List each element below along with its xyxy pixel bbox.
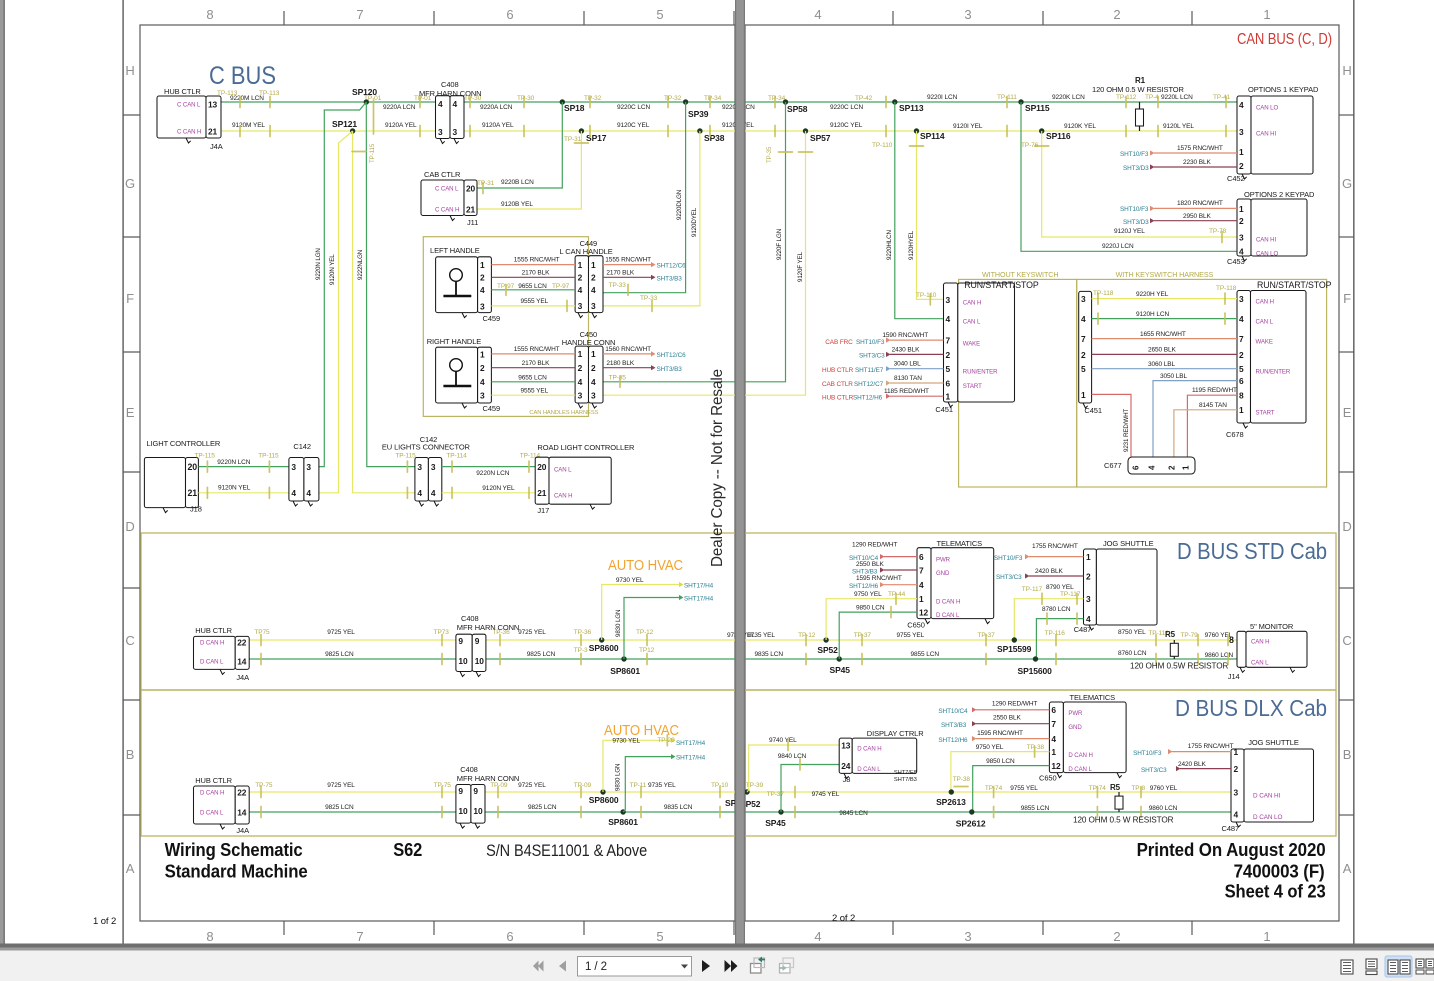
svg-text:21: 21 — [208, 126, 218, 136]
svg-text:A: A — [126, 861, 135, 876]
svg-text:SHT11/E7: SHT11/E7 — [855, 367, 884, 374]
svg-text:C459: C459 — [483, 314, 501, 323]
svg-text:1185 RED/WHT: 1185 RED/WHT — [884, 388, 929, 395]
svg-text:SHT10/F3: SHT10/F3 — [1120, 151, 1149, 158]
svg-text:5: 5 — [656, 7, 663, 22]
wire 1555 RNC/WHT left handle to C449 — [491, 264, 575, 266]
svg-text:CAN LO: CAN LO — [1256, 105, 1278, 112]
wire 9120D YEL drop SP38 to C449 — [603, 131, 700, 306]
svg-text:SP15599: SP15599 — [997, 644, 1032, 654]
wire 9220N LGN drop from SP120 — [319, 102, 366, 467]
wire 9120 C-bus YEL main (yellow) — [221, 130, 1237, 132]
svg-text:L CAN HANDLE: L CAN HANDLE — [560, 247, 613, 256]
wire 9850 LCN C650 to SP2612 — [973, 766, 1050, 812]
wire 9850 LCN C650 to SP45 — [839, 612, 917, 659]
layout icon two pages (selected) — [1385, 956, 1412, 977]
svg-text:TP-111: TP-111 — [997, 94, 1017, 101]
svg-text:9220A LCN: 9220A LCN — [383, 104, 416, 111]
svg-text:1820 RNC/WHT: 1820 RNC/WHT — [1177, 200, 1223, 207]
svg-text:9120I YEL: 9120I YEL — [953, 123, 983, 130]
svg-text:9735 YEL: 9735 YEL — [648, 782, 676, 789]
svg-text:1755 RNC/WHT: 1755 RNC/WHT — [1032, 543, 1078, 550]
svg-text:TP-09: TP-09 — [574, 782, 592, 789]
section box CAN HANDLES HARNESS — [423, 237, 588, 417]
svg-text:1: 1 — [591, 349, 596, 359]
resistor R1 120 ohm — [1139, 102, 1141, 131]
test point TP-76 lead on SP116 drop — [1035, 145, 1049, 147]
svg-text:TP-110: TP-110 — [872, 142, 893, 149]
svg-text:WITHOUT KEYSWITCH: WITHOUT KEYSWITCH — [982, 270, 1058, 279]
toolbar next page button — [702, 960, 710, 972]
svg-text:9220A LCN: 9220A LCN — [480, 104, 513, 111]
svg-text:TP-97: TP-97 — [552, 283, 570, 290]
svg-text:9725 YEL: 9725 YEL — [327, 782, 355, 789]
svg-text:3: 3 — [1081, 294, 1086, 304]
svg-text:9120C YEL: 9120C YEL — [617, 122, 650, 129]
svg-text:J11: J11 — [467, 218, 478, 227]
svg-text:4: 4 — [578, 285, 583, 295]
svg-text:9725 YEL: 9725 YEL — [518, 629, 546, 636]
svg-text:3: 3 — [306, 462, 311, 472]
svg-text:GND: GND — [936, 570, 950, 577]
svg-text:1655 RNC/WHT: 1655 RNC/WHT — [1140, 331, 1186, 338]
svg-text:9220C LCN: 9220C LCN — [617, 104, 650, 111]
svg-text:9120L YEL: 9120L YEL — [1163, 123, 1194, 130]
svg-text:G: G — [125, 176, 135, 191]
svg-text:5" MONITOR: 5" MONITOR — [1250, 622, 1294, 631]
svg-text:12: 12 — [1051, 761, 1061, 771]
svg-text:SP113: SP113 — [899, 103, 924, 113]
svg-text:TP-33: TP-33 — [640, 295, 658, 302]
wire 1755 RNC/WHT to C487 (DLX) — [1168, 749, 1173, 754]
svg-text:1: 1 — [1051, 747, 1056, 757]
svg-text:3060 LBL: 3060 LBL — [1148, 361, 1176, 368]
svg-text:8780 LCN: 8780 LCN — [1042, 606, 1071, 613]
svg-text:START: START — [963, 383, 982, 390]
svg-text:4: 4 — [1086, 614, 1091, 624]
viewer toolbar — [0, 951, 1434, 981]
svg-text:SP8601: SP8601 — [610, 666, 640, 676]
svg-text:C650: C650 — [907, 621, 925, 630]
svg-text:6: 6 — [919, 552, 924, 562]
svg-text:9750 YEL: 9750 YEL — [854, 591, 882, 598]
svg-text:SHT10/F3: SHT10/F3 — [1133, 750, 1162, 757]
svg-text:4: 4 — [1239, 100, 1244, 110]
wire 8790 YEL C487 to SP15599 — [1014, 599, 1083, 640]
wire 9840 LCN SP45 to display ctlr J8 — [781, 765, 839, 813]
svg-text:2550 BLK: 2550 BLK — [993, 715, 1022, 722]
svg-text:TP75: TP75 — [254, 629, 270, 636]
svg-text:4: 4 — [814, 7, 821, 22]
svg-text:1290 RED/WHT: 1290 RED/WHT — [992, 701, 1038, 708]
svg-text:SHT3/B3: SHT3/B3 — [941, 722, 967, 729]
svg-text:7: 7 — [356, 929, 363, 944]
svg-text:C408: C408 — [460, 765, 478, 774]
svg-text:9855 LCN: 9855 LCN — [1021, 805, 1050, 812]
svg-text:TP-34: TP-34 — [704, 95, 722, 102]
svg-text:9850 LCN: 9850 LCN — [856, 605, 885, 612]
wire 9555 YEL right handle to C450 — [491, 394, 575, 396]
svg-text:8750 YEL: 8750 YEL — [1118, 629, 1146, 636]
svg-text:1195 RED/WHT: 1195 RED/WHT — [1192, 387, 1237, 394]
test point TP-78 lead before C453 — [1221, 232, 1223, 243]
svg-text:TP-30: TP-30 — [517, 95, 535, 102]
svg-text:1590 RNC/WHT: 1590 RNC/WHT — [882, 332, 928, 339]
svg-text:13: 13 — [208, 99, 218, 109]
resistor R5 120 ohm (STD) — [1173, 640, 1175, 659]
svg-text:9120DYEL: 9120DYEL — [691, 207, 698, 237]
svg-text:SHT17/H4: SHT17/H4 — [676, 740, 706, 747]
svg-text:C: C — [1342, 633, 1351, 648]
svg-text:SP121: SP121 — [332, 119, 357, 129]
svg-text:2180 BLK: 2180 BLK — [606, 360, 635, 367]
svg-text:D: D — [125, 519, 134, 534]
test point TP-115 lead on drops — [352, 151, 366, 153]
svg-text:4: 4 — [1081, 314, 1086, 324]
wire 2180 BLK C450 to sheet arrow — [603, 367, 651, 369]
svg-text:GND: GND — [1068, 724, 1082, 731]
wire 1820 RNC/WHT to C453 pin1 — [1150, 206, 1155, 211]
test point TP-01 lead spanning buses — [373, 100, 375, 134]
svg-text:9220N LGN: 9220N LGN — [315, 248, 322, 280]
svg-text:1: 1 — [1239, 147, 1244, 157]
svg-text:START: START — [1256, 410, 1275, 417]
svg-text:1: 1 — [480, 260, 485, 270]
svg-text:C452: C452 — [1227, 174, 1245, 183]
svg-text:9: 9 — [458, 786, 463, 796]
svg-text:J8: J8 — [843, 775, 851, 784]
svg-text:9730 YEL: 9730 YEL — [616, 577, 644, 584]
svg-text:E: E — [126, 405, 135, 420]
svg-text:9760 YEL: 9760 YEL — [1150, 785, 1178, 792]
section box D BUS DLX Cab — [141, 690, 1336, 836]
wire 9825 LCN D-bus STD (green) — [249, 658, 1237, 660]
svg-text:3: 3 — [578, 390, 583, 400]
svg-text:B: B — [1343, 747, 1352, 762]
svg-text:9835 LCN: 9835 LCN — [755, 651, 784, 658]
wire 1575 RNC/WHT to C452 pin1 — [1150, 150, 1155, 155]
test point TP-34 TP-42 leads page2 — [774, 97, 776, 108]
svg-text:SHT3/B3: SHT3/B3 — [657, 366, 683, 373]
svg-text:1 of 2: 1 of 2 — [93, 916, 116, 927]
svg-text:8: 8 — [1229, 635, 1234, 645]
svg-text:TP-12: TP-12 — [636, 629, 654, 636]
wire 9220B LCN from cab ctlr to SP18 — [477, 102, 562, 188]
wire 9555 YEL left handle to C449 — [491, 305, 575, 307]
svg-text:10: 10 — [458, 806, 468, 816]
svg-text:LIGHT CONTROLLER: LIGHT CONTROLLER — [147, 439, 221, 448]
splice SP57 — [803, 128, 808, 133]
wire 9120N YEL J18 to C142 — [198, 492, 289, 494]
svg-text:C BUS: C BUS — [209, 62, 276, 90]
svg-text:2170 BLK: 2170 BLK — [522, 270, 551, 277]
svg-text:TP-33: TP-33 — [609, 282, 627, 289]
splice SP39 — [683, 99, 688, 104]
svg-text:9120N YEL: 9120N YEL — [482, 485, 515, 492]
svg-text:TP-8: TP-8 — [1131, 785, 1145, 792]
svg-text:C CAN H: C CAN H — [435, 207, 459, 214]
wire 9830 LGN to auto hvac (DLX) — [623, 757, 671, 812]
svg-text:Wiring Schematic: Wiring Schematic — [165, 840, 303, 860]
page 1 left grid ticks — [123, 114, 140, 116]
wire 2170 BLK left handle to C449 — [491, 276, 575, 278]
svg-text:2: 2 — [946, 350, 951, 360]
svg-text:4: 4 — [431, 488, 436, 498]
svg-text:C408: C408 — [441, 80, 459, 89]
svg-text:C453: C453 — [1227, 257, 1245, 266]
svg-text:J18: J18 — [190, 505, 202, 514]
wire 9655 LCN right handle to C450 — [491, 381, 575, 383]
svg-text:14: 14 — [237, 807, 247, 817]
section box D BUS STD Cab — [141, 533, 1336, 690]
svg-text:SHT10/F3: SHT10/F3 — [1120, 206, 1149, 213]
svg-text:SHT10/F3: SHT10/F3 — [856, 339, 885, 346]
svg-text:J14: J14 — [1228, 672, 1240, 681]
svg-text:SHT7/B3: SHT7/B3 — [894, 777, 917, 783]
svg-text:9220C LCN: 9220C LCN — [830, 104, 863, 111]
svg-text:TP-31: TP-31 — [564, 136, 582, 143]
svg-text:9120H LCN: 9120H LCN — [1136, 311, 1169, 318]
svg-text:Sheet 4 of 23: Sheet 4 of 23 — [1225, 882, 1326, 902]
connector C677 — [1128, 457, 1195, 474]
svg-text:2950 BLK: 2950 BLK — [1183, 213, 1212, 220]
svg-text:9850 LCN: 9850 LCN — [986, 758, 1015, 765]
svg-text:9825 LCN: 9825 LCN — [528, 804, 557, 811]
svg-text:C650: C650 — [1039, 774, 1057, 783]
svg-text:SHT17/H4: SHT17/H4 — [684, 583, 714, 590]
svg-text:1755 RNC/WHT: 1755 RNC/WHT — [1188, 743, 1234, 750]
svg-text:6: 6 — [506, 929, 513, 944]
svg-text:4: 4 — [417, 488, 422, 498]
svg-text:8: 8 — [1239, 391, 1244, 401]
svg-text:TP-30: TP-30 — [464, 95, 482, 102]
svg-text:4: 4 — [578, 377, 583, 387]
svg-text:5: 5 — [1239, 364, 1244, 374]
svg-text:9735 YEL: 9735 YEL — [747, 632, 775, 639]
svg-text:SP8601: SP8601 — [608, 817, 638, 827]
svg-text:CAB FRC: CAB FRC — [825, 339, 853, 346]
test point TP-110 lead near SP114 — [910, 145, 924, 147]
wire 2420 BLK to C487 (STD) — [1025, 573, 1030, 578]
svg-text:2: 2 — [1239, 216, 1244, 226]
wire 2430 BLK to C451 pin2 — [886, 352, 891, 357]
wire 9220D LGN drop SP39 to C449 — [603, 102, 686, 293]
wire 9220 C-bus LCN main (green) — [221, 101, 1237, 103]
svg-text:OPTIONS 1 KEYPAD: OPTIONS 1 KEYPAD — [1248, 85, 1319, 94]
svg-text:1290 RED/WHT: 1290 RED/WHT — [852, 542, 898, 549]
svg-text:JOG SHUTTLE: JOG SHUTTLE — [1103, 539, 1154, 548]
wire 1595 RNC/WHT to C650 (DLX) — [972, 736, 977, 741]
svg-text:3: 3 — [1234, 787, 1239, 797]
svg-text:2 of 2: 2 of 2 — [832, 913, 855, 924]
svg-text:TP-35: TP-35 — [766, 146, 773, 163]
wire 9220H YEL between C451 and C678 — [1092, 298, 1237, 300]
svg-text:9555 YEL: 9555 YEL — [521, 298, 549, 305]
svg-text:TP-09: TP-09 — [490, 782, 508, 789]
svg-text:SP58: SP58 — [787, 104, 808, 114]
svg-text:C408: C408 — [461, 614, 479, 623]
svg-text:AUTO HVAC: AUTO HVAC — [608, 557, 683, 574]
svg-text:SHT3/D3: SHT3/D3 — [1123, 219, 1149, 226]
svg-text:21: 21 — [188, 488, 198, 498]
svg-text:7400003 (F): 7400003 (F) — [1234, 862, 1325, 882]
wire 9120 second drop from SP121 to EU connector — [353, 131, 415, 493]
svg-text:9740 YEL: 9740 YEL — [769, 737, 797, 744]
svg-text:D BUS STD Cab: D BUS STD Cab — [1177, 538, 1327, 564]
svg-text:SHT12/C7: SHT12/C7 — [854, 381, 884, 388]
svg-text:3: 3 — [453, 127, 458, 137]
svg-text:Dealer Copy -- Not for Resale: Dealer Copy -- Not for Resale — [709, 369, 726, 567]
svg-text:1: 1 — [1263, 7, 1270, 22]
svg-text:HUB CTLR: HUB CTLR — [164, 87, 201, 96]
svg-text:9855 LCN: 9855 LCN — [911, 651, 940, 658]
svg-text:TP-115: TP-115 — [369, 143, 376, 163]
svg-text:TP-01: TP-01 — [364, 95, 382, 102]
splice SP114 — [914, 128, 919, 133]
splice SP52 (DLX) — [744, 789, 749, 794]
svg-text:J4A: J4A — [210, 142, 223, 151]
svg-text:12: 12 — [919, 608, 929, 618]
test point TP-34 leads — [709, 97, 711, 108]
svg-text:WAKE: WAKE — [963, 341, 980, 348]
svg-text:3: 3 — [1239, 232, 1244, 242]
svg-text:TP-115: TP-115 — [258, 453, 279, 460]
svg-text:6: 6 — [506, 7, 513, 22]
svg-text:D: D — [1342, 519, 1351, 534]
svg-text:1: 1 — [578, 260, 583, 270]
svg-text:J17: J17 — [537, 506, 549, 515]
svg-text:TP-115: TP-115 — [395, 453, 416, 460]
test point TP-4 lead — [1157, 97, 1159, 108]
svg-text:DISPLAY CTRLR: DISPLAY CTRLR — [867, 729, 924, 738]
svg-text:3050 LBL: 3050 LBL — [1160, 373, 1188, 380]
svg-text:C142: C142 — [293, 442, 311, 451]
svg-text:1555 RNC/WHT: 1555 RNC/WHT — [514, 257, 560, 264]
svg-text:D CAN L: D CAN L — [200, 810, 224, 817]
svg-text:SHT12/H6: SHT12/H6 — [938, 737, 968, 744]
svg-text:20: 20 — [537, 462, 547, 472]
svg-text:SHT3/D3: SHT3/D3 — [1123, 165, 1149, 172]
svg-text:5: 5 — [1081, 364, 1086, 374]
splice SP116 — [1039, 128, 1044, 133]
svg-text:9860 LCN: 9860 LCN — [1205, 652, 1234, 659]
svg-text:1555 RNC/WHT: 1555 RNC/WHT — [605, 257, 651, 264]
wire 1655 RNC/WHT C451 to C678 — [1092, 338, 1237, 340]
splice SP15600 — [1033, 656, 1038, 661]
svg-text:Printed On August 2020: Printed On August 2020 — [1137, 840, 1326, 860]
svg-text:D CAN L: D CAN L — [1068, 766, 1092, 773]
svg-text:20: 20 — [188, 462, 198, 472]
wire 9655 LCN left handle to C449 — [491, 289, 575, 291]
splice SP38 — [697, 128, 702, 133]
svg-text:RUN/START/STOP: RUN/START/STOP — [1257, 280, 1332, 290]
svg-text:CAN L: CAN L — [963, 319, 981, 326]
svg-text:2: 2 — [591, 273, 596, 283]
svg-text:SHT17/H4: SHT17/H4 — [676, 755, 706, 762]
svg-text:CAN HI: CAN HI — [1256, 131, 1276, 138]
svg-text:9220H YEL: 9220H YEL — [1136, 291, 1169, 298]
svg-text:SHT3/C3: SHT3/C3 — [996, 574, 1022, 581]
svg-text:1555 RNC/WHT: 1555 RNC/WHT — [514, 346, 560, 353]
svg-text:8760 LCN: 8760 LCN — [1118, 650, 1147, 657]
svg-text:SHT10/F3: SHT10/F3 — [994, 555, 1023, 562]
splice SP113 — [892, 99, 897, 104]
svg-text:CAN LO: CAN LO — [1256, 251, 1278, 258]
svg-text:4: 4 — [480, 377, 485, 387]
svg-text:CAN HANDLES HARNESS: CAN HANDLES HARNESS — [529, 410, 598, 416]
svg-text:WAKE: WAKE — [1256, 339, 1273, 346]
svg-text:SHT7/E8: SHT7/E8 — [894, 770, 917, 776]
svg-text:3: 3 — [591, 390, 596, 400]
svg-text:D CAN H: D CAN H — [200, 790, 224, 797]
wire 9120J YEL drop SP116 to C453 — [1042, 131, 1237, 237]
svg-text:SHT3/B3: SHT3/B3 — [657, 276, 683, 283]
svg-text:C678: C678 — [1226, 430, 1244, 439]
wire 1560 RNC/WHT C450 to sheet arrow — [603, 353, 651, 355]
svg-text:C CAN H: C CAN H — [177, 129, 201, 136]
svg-text:SP8600: SP8600 — [589, 643, 619, 653]
svg-text:3: 3 — [480, 301, 485, 311]
svg-text:4: 4 — [591, 377, 596, 387]
svg-text:1: 1 — [480, 349, 485, 359]
svg-text:4: 4 — [946, 314, 951, 324]
wire 9750 YEL C650 to SP2613 — [951, 752, 1050, 792]
wire 9825 LCN D-bus DLX (green) — [249, 811, 1231, 813]
svg-text:3: 3 — [417, 462, 422, 472]
svg-text:9120N YEL: 9120N YEL — [218, 485, 251, 492]
svg-text:7: 7 — [1081, 334, 1086, 344]
svg-text:D CAN H: D CAN H — [200, 640, 224, 647]
svg-text:2170 BLK: 2170 BLK — [606, 270, 635, 277]
svg-text:21: 21 — [537, 488, 547, 498]
svg-text:2420 BLK: 2420 BLK — [1178, 761, 1207, 768]
svg-text:9220L LCN: 9220L LCN — [1161, 94, 1193, 101]
splice SP58 — [783, 99, 788, 104]
svg-text:SHT3/C3: SHT3/C3 — [859, 353, 885, 360]
svg-text:1595 RNC/WHT: 1595 RNC/WHT — [977, 730, 1023, 737]
wire 9220J LCN drop SP115 to C453 — [1021, 102, 1237, 251]
svg-text:4: 4 — [480, 285, 485, 295]
keyswitch harness section box without keyswitch — [959, 279, 1077, 487]
wire 9120H LCN between C451 and C678 — [1092, 318, 1237, 320]
svg-text:D CAN L: D CAN L — [936, 612, 960, 619]
svg-text:9755 YEL: 9755 YEL — [897, 632, 925, 639]
svg-text:JOG SHUTTLE: JOG SHUTTLE — [1248, 738, 1299, 747]
page divider bar — [735, 0, 745, 946]
svg-text:D CAN HI: D CAN HI — [1253, 793, 1281, 800]
svg-text:PWR: PWR — [1068, 710, 1083, 717]
svg-text:TELEMATICS: TELEMATICS — [1070, 693, 1116, 702]
svg-text:CAN L: CAN L — [1256, 319, 1274, 326]
svg-text:S/N B4SE11001 & Above: S/N B4SE11001 & Above — [486, 841, 647, 860]
svg-text:3: 3 — [431, 462, 436, 472]
wire 9120F YEL drop SP57 to C450 — [603, 131, 806, 395]
svg-text:SP2612: SP2612 — [956, 819, 986, 829]
svg-text:9745 YEL: 9745 YEL — [812, 791, 840, 798]
svg-text:3: 3 — [1239, 127, 1244, 137]
svg-text:R5: R5 — [1165, 630, 1176, 639]
svg-text:TP-31: TP-31 — [477, 180, 495, 187]
svg-text:SP39: SP39 — [688, 109, 709, 119]
svg-text:2: 2 — [578, 363, 583, 373]
svg-text:SP45: SP45 — [830, 665, 851, 675]
test point TP-01 lead before C408 — [419, 97, 421, 108]
svg-text:TP-79: TP-79 — [1181, 632, 1199, 639]
svg-text:2170 BLK: 2170 BLK — [522, 360, 551, 367]
svg-text:HUB CTLR: HUB CTLR — [822, 395, 854, 402]
test point TP-111 lead — [1006, 97, 1008, 108]
toolbar last page button — [725, 960, 732, 972]
